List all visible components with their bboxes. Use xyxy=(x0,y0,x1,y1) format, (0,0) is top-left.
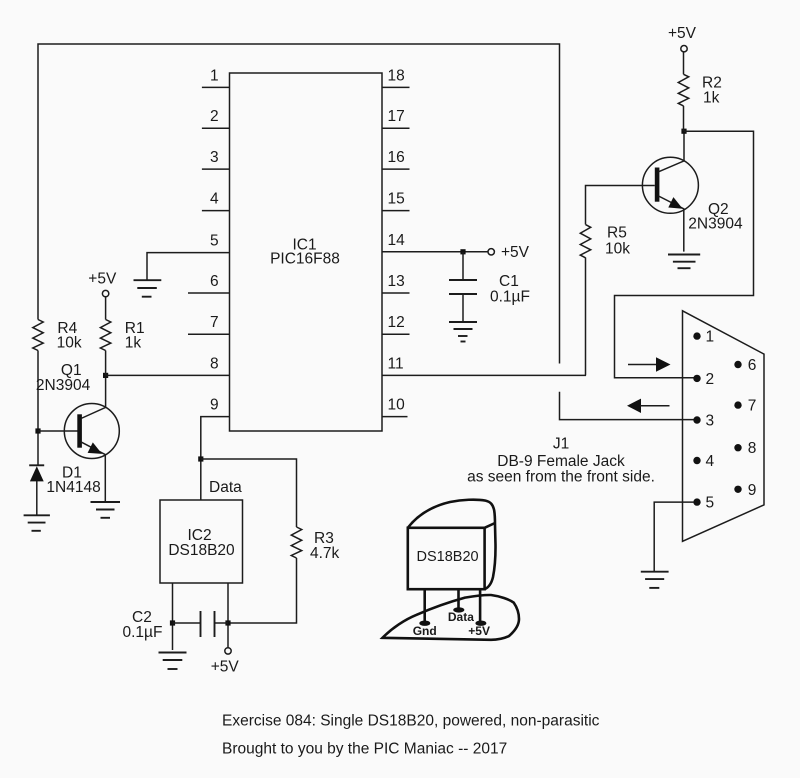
wire R2 bottom to junction xyxy=(683,106,685,131)
J1 pin 8 xyxy=(734,444,741,451)
node Q1 base junction xyxy=(35,428,40,433)
pin 11 wire to R5 xyxy=(382,374,586,376)
svg-text:Gnd: Gnd xyxy=(413,624,437,638)
node C2 left junction xyxy=(170,620,175,625)
svg-text:2: 2 xyxy=(210,108,219,125)
node R2/Q2 collector junction xyxy=(681,129,686,134)
svg-text:as seen from the front side.: as seen from the front side. xyxy=(467,469,655,486)
svg-text:7: 7 xyxy=(210,314,219,331)
wire R5 top to Q2 base xyxy=(586,186,655,225)
pin 16 xyxy=(382,168,410,170)
wire pin 8 to junction xyxy=(106,374,230,376)
wire top bus from R4 column to DB9 pin3 column xyxy=(38,44,560,364)
svg-text:9: 9 xyxy=(748,482,757,499)
pin 2 xyxy=(202,127,230,129)
arrow out of DB9 pin 3 xyxy=(627,399,641,413)
J1 pin 5 xyxy=(693,498,700,505)
J1 pin 7 xyxy=(734,401,741,408)
wire pin 5 to ground xyxy=(147,253,230,281)
svg-text:1N4148: 1N4148 xyxy=(46,479,100,496)
svg-text:+5V: +5V xyxy=(501,244,530,261)
wire Q2 collector to DB9 pin2 xyxy=(615,131,754,378)
svg-text:R5: R5 xyxy=(607,225,627,242)
svg-text:6: 6 xyxy=(748,357,757,374)
+5V terminal at pin 14 xyxy=(488,249,494,255)
svg-text:11: 11 xyxy=(388,355,404,372)
svg-text:10k: 10k xyxy=(57,334,82,351)
svg-text:10: 10 xyxy=(388,397,406,414)
svg-text:8: 8 xyxy=(748,440,757,457)
svg-text:+5V: +5V xyxy=(211,659,240,676)
ground below C2 xyxy=(159,653,187,670)
ground below Q1 emitter xyxy=(91,502,121,518)
svg-text:10k: 10k xyxy=(605,241,630,258)
IC2 DS18B20 body xyxy=(160,500,243,583)
diode D1 xyxy=(29,464,44,466)
capacitor C1 xyxy=(462,252,464,280)
resistor R5 xyxy=(580,225,590,258)
+5V terminal above R1 xyxy=(102,290,108,296)
svg-text:7: 7 xyxy=(748,398,757,415)
svg-text:PIC16F88: PIC16F88 xyxy=(270,251,340,268)
svg-text:+5V: +5V xyxy=(468,624,490,638)
svg-text:0.1µF: 0.1µF xyxy=(123,624,163,641)
pin 9 wire down to IC2 xyxy=(201,417,230,500)
J1 pin 3 xyxy=(693,416,700,423)
svg-text:Data: Data xyxy=(209,479,242,496)
pin 1 xyxy=(202,86,230,88)
ground below Q2 emitter xyxy=(668,255,700,269)
DS18B20 package top-right edge xyxy=(485,523,495,528)
capacitor C2 xyxy=(173,622,201,624)
pin 14 wire to +5V/C1 xyxy=(382,251,488,253)
package lead Gnd xyxy=(423,589,426,621)
wire R5 bottom to pin11 wire xyxy=(585,258,587,376)
J1 pin 2 xyxy=(693,375,700,382)
svg-text:J1: J1 xyxy=(553,436,569,453)
node Data junction xyxy=(198,456,203,461)
node R1/Q1 collector/pin8 junction xyxy=(103,373,108,378)
swoosh base pad xyxy=(383,595,520,640)
package lead Data xyxy=(457,589,460,608)
svg-text:Exercise 084: Single DS18B20,: Exercise 084: Single DS18B20, powered, n… xyxy=(222,713,600,730)
resistor R3 xyxy=(291,527,301,558)
IC1 PIC16F88 body xyxy=(230,73,383,431)
resistor R4 xyxy=(33,320,43,351)
svg-text:C1: C1 xyxy=(499,273,519,290)
pin 17 xyxy=(382,127,410,129)
J1 pin 1 xyxy=(693,332,700,339)
+5V terminal below C2 xyxy=(225,648,231,654)
DS18B20 package front face xyxy=(408,528,485,589)
svg-text:4.7k: 4.7k xyxy=(310,545,340,562)
svg-text:1: 1 xyxy=(210,67,219,84)
svg-text:2N3904: 2N3904 xyxy=(688,215,743,232)
svg-text:9: 9 xyxy=(210,397,219,414)
pin 6 xyxy=(188,292,230,294)
pin 15 xyxy=(382,210,410,212)
svg-text:5: 5 xyxy=(706,495,715,512)
pin 10 xyxy=(382,416,408,418)
svg-text:+5V: +5V xyxy=(88,271,117,288)
svg-text:2: 2 xyxy=(706,371,715,388)
pin 12 xyxy=(382,333,410,335)
wire IC2 vdd lead xyxy=(227,583,229,648)
svg-text:4: 4 xyxy=(706,453,715,470)
svg-text:3: 3 xyxy=(706,413,715,430)
resistor R2 xyxy=(678,74,688,106)
svg-text:Brought to you by the PIC Mani: Brought to you by the PIC Maniac -- 2017 xyxy=(222,741,507,758)
resistor R1 xyxy=(100,320,110,351)
wire R4 to Q1 base node xyxy=(37,351,39,466)
svg-text:8: 8 xyxy=(210,355,219,372)
connector J1 DB-9 outline xyxy=(683,311,765,542)
ground at pin 5 xyxy=(134,280,162,297)
J1 pin 6 xyxy=(734,361,741,368)
svg-text:Data: Data xyxy=(448,610,474,624)
svg-text:0.1µF: 0.1µF xyxy=(490,289,530,306)
wire R3 bottom to C2 node xyxy=(228,558,297,623)
svg-text:16: 16 xyxy=(388,149,405,166)
wire IC2 gnd lead xyxy=(172,583,174,650)
wire D1 to ground xyxy=(36,481,38,515)
wire DB9 pin5 to ground xyxy=(654,502,694,572)
svg-text:5: 5 xyxy=(210,233,219,250)
wire R1 top to +5V terminal xyxy=(105,297,107,320)
svg-text:15: 15 xyxy=(388,191,405,208)
svg-text:18: 18 xyxy=(388,67,405,84)
svg-text:14: 14 xyxy=(388,232,406,249)
svg-text:DS18B20: DS18B20 xyxy=(168,542,235,559)
svg-text:3: 3 xyxy=(210,149,219,166)
svg-text:13: 13 xyxy=(388,273,405,290)
DS18B20 package dome top xyxy=(408,500,496,590)
svg-text:+5V: +5V xyxy=(668,25,697,42)
pin 13 xyxy=(382,292,410,294)
wire Data node to R3 xyxy=(201,459,297,527)
ground at DB9 pin5 xyxy=(641,572,669,588)
node C2 right junction xyxy=(225,620,230,625)
wire crossing break continuation down to DB9 pin3 xyxy=(560,392,695,420)
svg-text:17: 17 xyxy=(388,108,405,125)
pin 7 xyxy=(188,333,230,335)
ground below C1 xyxy=(449,322,477,342)
svg-text:12: 12 xyxy=(388,314,405,331)
node C1 junction on pin14 wire xyxy=(460,249,465,254)
arrow into DB9 pin 2 xyxy=(628,364,657,366)
pin 18 xyxy=(382,86,410,88)
ground below D1 xyxy=(24,515,50,531)
svg-text:DB-9 Female Jack: DB-9 Female Jack xyxy=(497,453,625,470)
+5V terminal above R2 xyxy=(681,46,687,52)
transistor Q2 xyxy=(642,157,698,213)
svg-text:DS18B20: DS18B20 xyxy=(417,549,479,565)
svg-text:6: 6 xyxy=(210,273,219,290)
J1 pin 4 xyxy=(693,457,700,464)
transistor Q1 xyxy=(64,404,119,459)
svg-text:4: 4 xyxy=(210,191,219,208)
J1 pin 9 xyxy=(734,486,741,493)
svg-text:1k: 1k xyxy=(703,90,720,107)
package lead +5V xyxy=(479,589,482,621)
pin 3 xyxy=(202,168,230,170)
svg-text:2N3904: 2N3904 xyxy=(36,377,91,394)
svg-text:1k: 1k xyxy=(125,334,142,351)
svg-text:1: 1 xyxy=(706,329,715,346)
wire R2 top to +5V terminal xyxy=(683,52,685,74)
wire base of Q1 xyxy=(38,430,78,432)
wire R1 bottom to junction xyxy=(105,351,107,376)
pin 4 xyxy=(202,210,230,212)
